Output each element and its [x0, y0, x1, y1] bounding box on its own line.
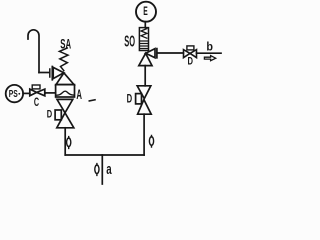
svg-text:PS: PS — [9, 89, 18, 100]
svg-text:D: D — [47, 109, 52, 121]
svg-text:b: b — [206, 40, 213, 53]
svg-text:C: C — [34, 95, 39, 109]
svg-text:SO: SO — [124, 34, 135, 51]
svg-text:E: E — [143, 4, 148, 18]
svg-text:a: a — [106, 162, 112, 178]
svg-text:A: A — [76, 87, 82, 102]
svg-text:D: D — [127, 92, 133, 106]
svg-text:D: D — [188, 56, 194, 68]
svg-text:SA: SA — [60, 36, 71, 52]
